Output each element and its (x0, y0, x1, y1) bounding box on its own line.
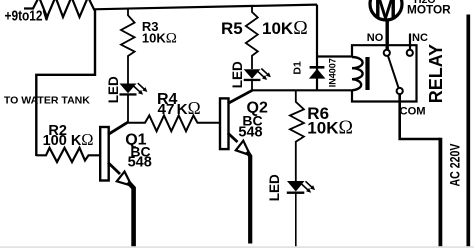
relay COM contact (397, 88, 403, 94)
diode D1 (flyback) (309, 66, 326, 79)
relay core bar (365, 57, 369, 90)
svg-text:10KΩ: 10KΩ (142, 30, 177, 46)
bottom edge artifact strip (0, 246, 474, 248)
wire +V rail drop through D1 to coil node (316, 5, 318, 91)
wire +V top rail (93, 5, 317, 10)
wire from +V rail down-left to R2 (36, 10, 95, 157)
svg-text:10KΩ: 10KΩ (262, 18, 308, 39)
motor M1 (370, 0, 402, 20)
svg-text:548: 548 (128, 155, 152, 171)
relay armature wire (388, 56, 399, 88)
transistor Q2 (220, 90, 252, 243)
relay NO contact (384, 50, 390, 56)
svg-text:AC 220V: AC 220V (448, 144, 463, 187)
relay NC contact (407, 50, 413, 56)
svg-text:RELAY: RELAY (426, 44, 446, 103)
wire coil top tap (316, 55, 353, 57)
svg-text:R5: R5 (221, 19, 243, 38)
svg-text:+9to12V: +9to12V (5, 7, 51, 24)
svg-text:548: 548 (238, 125, 262, 141)
svg-text:LED: LED (267, 174, 282, 201)
wire LED D4 to bottom edge (295, 194, 297, 248)
relay coil K1 (352, 57, 363, 90)
wire motor to NO contact (386, 20, 389, 50)
wire NC stub (409, 34, 411, 50)
resistor R3 (121, 9, 135, 84)
resistor R1 (supply series, top-left) (24, 0, 94, 17)
svg-text:M: M (374, 0, 397, 24)
relay box (352, 45, 417, 101)
resistor R6 (290, 90, 304, 181)
svg-text:D1: D1 (292, 61, 304, 75)
svg-text:NC: NC (412, 32, 428, 44)
wire COM to AC line (400, 94, 441, 139)
LED D3 (indicator at Q2 collector) (244, 69, 271, 82)
transistor Q1 (100, 122, 133, 247)
svg-text:100 KΩ: 100 KΩ (43, 130, 94, 149)
svg-text:COM: COM (400, 105, 426, 117)
wire LED to Q2 collector junction (251, 81, 253, 91)
resistor R5 (246, 5, 258, 69)
svg-text:MOTOR: MOTOR (407, 2, 451, 16)
svg-text:NO: NO (367, 32, 384, 44)
wire AC drop (COM side) (438, 138, 442, 248)
svg-text:10KΩ: 10KΩ (307, 118, 353, 139)
svg-text:IN4007: IN4007 (328, 58, 338, 87)
resistor R4 (128, 115, 220, 131)
svg-text:LED: LED (230, 61, 245, 88)
resistor R2 (36, 148, 100, 162)
wire LED to Q1 collector junction (127, 95, 129, 123)
svg-text:TO WATER TANK: TO WATER TANK (4, 96, 90, 107)
svg-text:47KΩ: 47KΩ (158, 98, 201, 118)
svg-text:LED: LED (106, 76, 121, 103)
wire Q2 collector node to relay coil bottom (251, 89, 352, 91)
wire AC line (right edge) (466, 15, 470, 248)
LED D2 (indicator at Q1 collector) (120, 83, 148, 95)
LED D4 (bottom indicator) (287, 181, 315, 194)
